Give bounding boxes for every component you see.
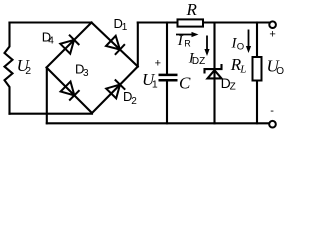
- zener branch wire: [213, 23, 215, 124]
- bridge diamond wires: [47, 23, 138, 114]
- bridge diode D1: [106, 36, 125, 55]
- capacitor branch wire top: [166, 23, 168, 74]
- svg-text:R: R: [186, 0, 198, 19]
- top rail wire: [138, 21, 270, 23]
- svg-text:DZ: DZ: [192, 56, 205, 67]
- svg-text:3: 3: [83, 68, 89, 79]
- svg-text:-: -: [270, 105, 274, 117]
- current arrow IDZ: [204, 36, 209, 57]
- load branch wire bottom: [256, 81, 258, 124]
- svg-text:+: +: [155, 58, 161, 70]
- zener diode DZ: [205, 64, 222, 78]
- svg-text:+: +: [269, 28, 275, 40]
- capacitor branch wire bottom: [166, 81, 168, 123]
- svg-text:4: 4: [48, 36, 54, 47]
- resistor R: [178, 19, 204, 26]
- transformer secondary winding U2 (zigzag): [5, 23, 13, 114]
- svg-text:1: 1: [152, 79, 158, 91]
- wire top-left (U2 top to bridge apex): [10, 21, 92, 23]
- svg-text:Z: Z: [230, 82, 236, 93]
- capacitor C plates: [159, 75, 178, 80]
- svg-text:2: 2: [25, 65, 31, 77]
- wire bottom-left (U2 bottom to bridge bottom corner): [10, 113, 93, 115]
- svg-text:1: 1: [122, 22, 128, 33]
- wire bridge left corner to bottom rail: [46, 68, 48, 124]
- current arrow IO: [246, 30, 251, 54]
- svg-text:C: C: [179, 74, 191, 93]
- load resistor RL: [253, 57, 262, 81]
- svg-text:R: R: [184, 38, 191, 48]
- current arrow IR: [176, 32, 199, 37]
- svg-text:L: L: [239, 64, 246, 76]
- bridge diode D2: [106, 80, 125, 99]
- wire bridge right corner to top rail: [137, 23, 139, 67]
- svg-text:O: O: [276, 66, 284, 77]
- svg-text:O: O: [237, 42, 244, 53]
- load branch wire top: [256, 23, 258, 58]
- bridge diode D3: [61, 82, 80, 101]
- output terminal + (top right): [269, 21, 276, 28]
- bridge diode D4: [60, 35, 79, 54]
- svg-text:2: 2: [131, 96, 137, 107]
- bottom rail wire: [47, 122, 268, 124]
- output terminal - (bottom right): [269, 121, 276, 128]
- svg-text:I: I: [177, 33, 184, 49]
